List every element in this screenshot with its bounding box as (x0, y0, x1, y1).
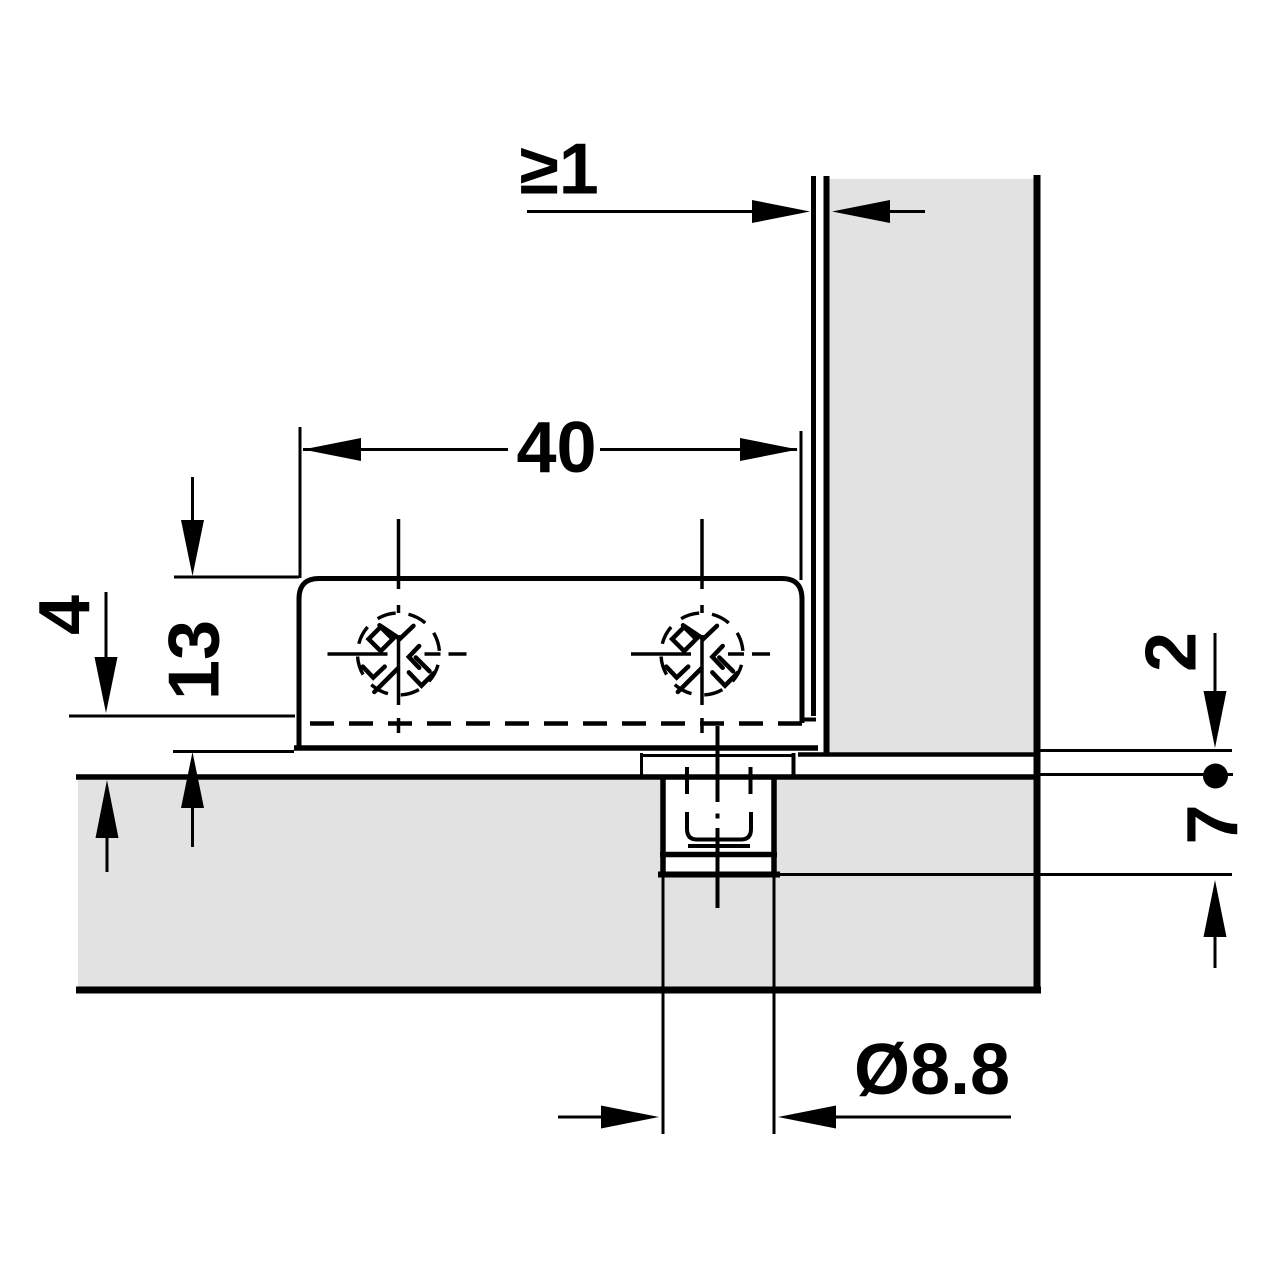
dimension >=1 left arrow (832, 200, 890, 223)
hinge plate dashed line (310, 721, 802, 726)
dimension 4 down arrow shaft (105, 592, 108, 658)
dimension 40 right arrow (740, 438, 798, 461)
hole diameter right extension line (773, 877, 776, 1134)
dimension 40 line (303, 448, 508, 451)
dimension dia 8.8 right arrow (778, 1106, 836, 1129)
dimension dia 8.8 right arrow shaft (836, 1116, 1011, 1119)
dimension 13 down arrow (181, 520, 204, 576)
dimension 2 arrow shaft (1214, 633, 1217, 692)
screw left horizontal centerline (328, 652, 388, 656)
plate top reference line (174, 576, 299, 579)
mounting flange right edge (792, 753, 796, 776)
dimension >=1 left arrow tail (890, 210, 925, 213)
hinge plate bottom edge (294, 745, 818, 751)
svg-text:Ø8.8: Ø8.8 (854, 1030, 1010, 1110)
screw left (328, 519, 467, 733)
dimension 40 left extension line (299, 427, 302, 578)
cabinet panel gray fill (78, 780, 1034, 987)
svg-text:13: 13 (155, 620, 235, 700)
hinge plate corner hook (801, 718, 816, 722)
screw right vertical centerline (700, 519, 704, 589)
door gap reference line (811, 176, 816, 716)
cabinet panel top edge (76, 774, 1040, 780)
dimension 13 up arrow shaft (191, 808, 194, 847)
origin dot (1203, 764, 1228, 789)
hole bottom extension line (780, 873, 1232, 876)
screw left vertical centerline (397, 519, 401, 589)
hole left edge (660, 777, 666, 877)
screw right dashed circle (661, 613, 743, 695)
door/panel right edge (1034, 175, 1041, 990)
hole bottom edge (658, 872, 780, 878)
cabinet panel top extension line (1040, 773, 1233, 776)
dimension >=1 right arrow (752, 200, 810, 223)
door left edge line (824, 176, 830, 753)
screw right cross pattern (666, 625, 737, 692)
dowel bottom edge (660, 852, 777, 858)
drilled hole white interior (665, 777, 772, 872)
dimension 4 reference line (69, 715, 295, 718)
dimension 13 up arrow (181, 752, 204, 808)
hinge plate outline (299, 579, 802, 751)
dowel centerline upper (716, 726, 720, 802)
screw right horizontal centerline (631, 652, 691, 656)
dowel screw channel right (749, 767, 753, 794)
mounting flange top edge (641, 754, 793, 757)
dimension 2 down arrow (1204, 691, 1227, 748)
dimension 4 up arrow shaft (106, 838, 109, 872)
dowel centerline dot (716, 814, 720, 819)
svg-text:7: 7 (1173, 804, 1253, 844)
dimension dia 8.8 left arrow (601, 1106, 659, 1129)
dowel centerline lower (716, 828, 720, 908)
dimension 7 up arrow (1204, 880, 1227, 937)
dowel screw cup (687, 812, 751, 840)
svg-text:40: 40 (516, 408, 596, 488)
cabinet panel bottom edge (76, 987, 1041, 994)
door bottom extension line (1040, 749, 1232, 752)
dowel cup lower line (688, 844, 750, 848)
screw left cross pattern (363, 625, 434, 692)
dimension 40 left arrow (303, 438, 361, 461)
dimension 40 right extension line (800, 431, 803, 580)
screw left dashed circle (358, 613, 440, 695)
dimension 4 up arrow (96, 780, 119, 838)
door panel gray fill (829, 179, 1034, 752)
door bottom edge (798, 752, 1040, 757)
svg-text:2: 2 (1132, 632, 1212, 672)
hole diameter left extension line (662, 877, 665, 1134)
svg-text:4: 4 (25, 595, 105, 635)
dimension 4 down arrow (95, 657, 118, 713)
hole right edge (771, 777, 777, 877)
svg-text:≥1: ≥1 (519, 130, 599, 210)
mounting flange left edge (640, 753, 643, 776)
dimension dia 8.8 left arrow shaft (558, 1116, 602, 1119)
plate bottom reference line (173, 750, 294, 753)
dowel screw channel left (685, 767, 689, 794)
screw right (631, 519, 770, 733)
dimension >=1 line (527, 210, 753, 213)
dimension 13 down arrow shaft (191, 477, 194, 522)
dimension 7 up arrow shaft (1214, 937, 1217, 968)
